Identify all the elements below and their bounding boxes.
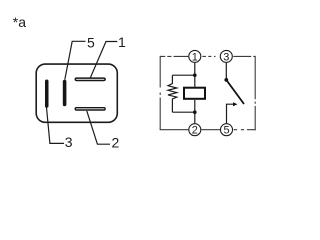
switch blade [226,80,244,104]
terminal circle 3 [220,50,232,62]
switch pivot node [224,78,228,82]
svg-text:1: 1 [118,34,126,50]
terminal circle 5 [221,124,233,136]
pin 2 slot (lower horizontal terminal) [75,108,105,110]
wire: top rail to resistor [172,74,194,76]
terminal circle 2 [189,124,201,136]
svg-text:5: 5 [87,34,95,50]
wire: terminal 3 lead down to pivot [225,63,227,80]
leader line pin 5 [65,41,86,80]
schematic chain-line border: right edge [254,56,256,130]
svg-text:*a: *a [13,14,26,30]
svg-text:2: 2 [192,125,198,137]
svg-text:3: 3 [65,134,73,150]
terminal circle 1 [189,50,201,62]
leader line pin 2 [87,111,110,144]
svg-text:1: 1 [192,51,198,63]
contact arrowhead [233,102,238,106]
wire: terminal 1 lead down to coil [194,63,196,87]
resistor (parallel with coil) [168,75,177,112]
wire: bottom rail to resistor [172,111,194,113]
schematic chain-line border: left edge [159,56,161,130]
pin 3 slot (left vertical terminal) [45,80,49,108]
wire: coil bottom to terminal 2 [194,100,196,123]
schematic chain-line border: bottom edge [160,129,256,131]
pin 1 slot (upper horizontal terminal) [75,78,105,80]
schematic chain-line border: top edge [160,55,255,57]
coil (relay winding box) [184,88,205,99]
pin 5 slot (center vertical terminal) [63,80,67,107]
svg-text:5: 5 [223,125,229,137]
svg-text:3: 3 [223,51,229,63]
wire: terminal 5 lead up with contact arrow [227,104,234,123]
node junction top [193,73,197,77]
leader line pin 3 [47,108,65,144]
node junction bottom [193,110,197,114]
svg-text:2: 2 [112,135,120,151]
leader line pin 1 [90,42,117,79]
relay connector body [36,64,117,122]
